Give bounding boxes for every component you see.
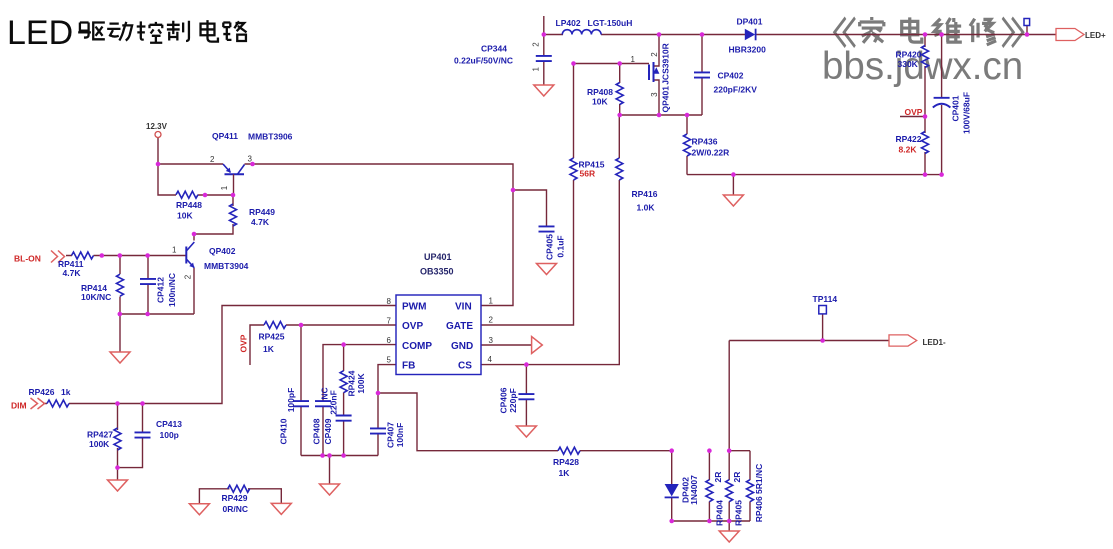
resistor RP426 [47,400,69,407]
resistor RP405 [726,480,733,502]
svg-text:100n/NC: 100n/NC [167,273,177,307]
svg-text:1K: 1K [559,468,571,478]
svg-text:CP413: CP413 [156,419,182,429]
port DIM [31,398,45,409]
wire RP408 leads [619,64,621,116]
wire sense network top corner [729,450,750,452]
svg-text:3: 3 [248,155,253,164]
svg-text:CP407: CP407 [386,422,396,448]
resistor RP436 [684,134,691,156]
svg-text:2W/0.22R: 2W/0.22R [692,148,730,158]
wire test point stem LED+ [1026,26,1028,35]
test point square at LED+ [1024,19,1030,26]
svg-text:DP401: DP401 [737,17,763,27]
wire gate node link [574,63,650,65]
svg-text:CP405: CP405 [545,234,555,260]
transistor QP411 [223,164,245,195]
resistor RP428 [558,447,580,454]
svg-text:LED1-: LED1- [923,338,946,347]
wire LP402 to DP401 [601,34,745,36]
svg-text:10K: 10K [592,97,608,107]
wire QP411 collector to VIN [245,164,514,306]
wire RP429 links [199,489,281,504]
svg-text:8: 8 [387,297,392,306]
wire RP436 leads [686,115,688,175]
wire QP402 emitter bottom bus [120,268,194,314]
wire DP402 leads [671,451,673,521]
capacitor CP344 [536,56,552,61]
svg-text:LGT-150uH: LGT-150uH [588,18,633,28]
ground [110,352,130,363]
svg-text:CS: CS [458,361,472,372]
resistor RP408 [616,83,623,105]
svg-text:RP405: RP405 [734,500,744,526]
wire DIM to PWM pin8 [43,306,396,404]
resistor RP422 [922,132,929,154]
wire DP401 to LED+ [756,34,1057,36]
svg-text:DIM: DIM [11,401,27,411]
svg-text:PWM: PWM [402,302,426,313]
svg-text:3: 3 [650,92,659,97]
svg-text:5: 5 [387,356,392,365]
svg-text:RP406 5R1/NC: RP406 5R1/NC [754,464,764,523]
svg-text:RP408: RP408 [587,87,613,97]
connector LED+ [1056,29,1084,41]
capacitor CP402 [694,72,710,77]
ground [723,195,743,206]
svg-text:2: 2 [184,274,193,279]
svg-text:0R/NC: 0R/NC [223,504,249,514]
svg-text:UP401: UP401 [424,252,452,262]
svg-text:100K: 100K [89,439,110,449]
wire OVP stub and RP425 to pin7 [250,325,396,365]
svg-text:10K: 10K [177,211,193,221]
transistor QP402 [186,242,194,268]
resistor RP404 [706,480,713,502]
svg-text:330K: 330K [898,59,919,69]
svg-text:100K: 100K [356,372,366,393]
inductor LP402 [562,30,601,35]
svg-text:0.1uF: 0.1uF [556,235,566,257]
svg-text:4: 4 [488,355,493,364]
wire RP420 RP422 chain [924,35,926,175]
svg-text:2R: 2R [732,472,742,483]
wire OVP underline [900,116,925,118]
port BL-ON [51,251,65,263]
svg-text:RP404: RP404 [715,500,725,526]
resistor RP429 [228,485,250,492]
svg-text:TP114: TP114 [813,294,838,304]
wire CP344 ground lead [543,62,545,86]
svg-text:100nF: 100nF [395,423,405,448]
ground [516,426,536,437]
svg-text:CP409: CP409 [323,418,333,444]
wire VIN branch to CP405 [513,190,547,226]
capacitor CP410 [293,401,309,406]
svg-text:8.2K: 8.2K [899,145,918,155]
wire CP401 leads [941,35,943,175]
wire RP427 leads [117,404,119,468]
wire GND pin3 [481,344,532,346]
resistor RP427 [114,428,121,450]
svg-text:RP416: RP416 [632,189,658,199]
resistor RP414 [117,274,124,296]
resistor RP416 [616,158,623,180]
watermark text [822,17,1023,88]
svg-text:VIN: VIN [455,302,472,313]
capacitor CP407 [370,428,386,433]
wire RP406 branch [749,451,751,521]
wire RP404 leads [708,451,710,521]
svg-text:CP408: CP408 [312,418,322,444]
ground [271,503,291,514]
wire TP114 stem [822,314,824,341]
resistor RP425 [264,322,286,329]
svg-text:3: 3 [489,336,494,345]
ground [719,531,739,542]
svg-text:RP426: RP426 [29,387,55,397]
svg-text:4.7K: 4.7K [63,268,82,278]
svg-text:CP406: CP406 [499,387,509,413]
wire LED1- net [729,340,889,342]
power symbol 12.3V [155,132,161,138]
svg-text:RP427: RP427 [87,430,113,440]
wire ground stem left cell [119,314,121,352]
wire ground stem comp bus [329,456,331,485]
svg-text:MMBT3906: MMBT3906 [248,132,293,142]
svg-text:1: 1 [631,55,636,64]
ground right-pointing pin3 [532,337,543,354]
capacitor CP406 [518,394,534,399]
svg-text:1: 1 [172,246,177,255]
svg-text:1N4007: 1N4007 [689,475,699,505]
title LED drive control circuit [7,14,247,52]
op-amp U1 IC UP401 box [396,295,481,375]
svg-text:CP410: CP410 [279,418,289,444]
svg-text:RP425: RP425 [259,332,285,342]
svg-text:BL-ON: BL-ON [14,254,41,264]
svg-text:MMBT3904: MMBT3904 [204,261,249,271]
wire input stub top [543,16,545,55]
wire CP402 leads [701,35,703,116]
svg-text:1K: 1K [263,344,275,354]
svg-text:220pF: 220pF [508,388,518,413]
ground [537,264,557,275]
svg-text:0.22uF/50V/NC: 0.22uF/50V/NC [454,56,513,66]
wire ground stem RP427 [117,468,119,480]
svg-text:2: 2 [210,155,215,164]
ground [108,480,128,491]
svg-text:220nF: 220nF [329,390,339,415]
svg-text:CP344: CP344 [481,44,507,54]
wire compensation bottom bus [301,455,378,457]
svg-text:56R: 56R [580,169,596,179]
diode DP401 [745,29,756,41]
svg-text:CP402: CP402 [718,71,744,81]
capacitor CP408 [315,401,331,406]
ground [189,504,209,515]
wire CP406 branch [525,365,527,426]
resistor RP449 [230,204,237,226]
resistor RP424 [340,371,347,393]
svg-text:QP402: QP402 [209,246,236,256]
svg-text:OVP: OVP [239,334,249,352]
wire RP448 to base node [198,194,233,196]
ground [320,484,340,495]
svg-text:1.0K: 1.0K [637,203,656,213]
svg-text:LED: LED [7,14,73,52]
svg-text:OVP: OVP [402,321,423,332]
svg-text:QP401: QP401 [661,86,671,113]
wire CP410 branch [300,325,302,456]
wire sense bottom rail [687,174,942,176]
svg-text:7: 7 [387,317,392,326]
svg-text:GND: GND [451,341,473,352]
svg-text:RP429: RP429 [222,493,248,503]
svg-text:FB: FB [402,361,415,372]
resistor RP448 [176,191,198,198]
svg-text:220pF/2KV: 220pF/2KV [714,85,758,95]
wire FB node [378,365,396,456]
connector LED1- [889,335,917,346]
svg-text:OVP: OVP [905,107,923,117]
wire CP412 leads [147,256,149,315]
wire LED1- drop to sense network [728,341,730,522]
svg-text:4.7K: 4.7K [251,217,270,227]
svg-text:6: 6 [387,336,392,345]
svg-text:1: 1 [532,67,541,72]
resistor RP415 [570,158,577,180]
svg-text:RP420: RP420 [896,50,922,60]
wire FB to RP428 run [378,393,672,451]
wire top rail to LP402 [544,34,563,36]
svg-text:12.3V: 12.3V [146,122,168,131]
wire 12.3V supply rail [158,138,176,196]
svg-text:1k: 1k [61,387,71,397]
svg-text:RP448: RP448 [176,200,202,210]
resistor RP420 [922,46,929,68]
resistor RP406 [747,480,754,502]
svg-text:GATE: GATE [446,321,473,332]
svg-text:1: 1 [489,297,494,306]
wire QP401 source [654,80,660,115]
svg-text:RP449: RP449 [249,207,275,217]
svg-text:2: 2 [489,316,494,325]
capacitor CP405 [539,226,555,231]
svg-text:2R: 2R [713,472,723,483]
capacitor CP409 [336,416,352,421]
wire ground stem sense rail [732,175,734,195]
wire CP413 leads [118,404,143,468]
wire QP401 drain [654,35,660,67]
wire CS pin4 to RP416 [481,115,619,365]
capacitor CP413 [135,432,151,437]
capacitor CP412 [140,279,156,284]
svg-text:100pF: 100pF [286,388,296,413]
ground [534,85,554,96]
svg-text:RP422: RP422 [896,134,922,144]
svg-text:RP436: RP436 [692,137,718,147]
svg-text:LED+: LED+ [1085,31,1106,40]
svg-text:CP401: CP401 [951,95,961,121]
transistor Q2 MOSFET QP401 [649,62,659,82]
wire ground stem sense network [728,521,730,531]
svg-text:100V/68uF: 100V/68uF [962,92,972,134]
svg-text:OB3350: OB3350 [420,267,454,277]
wire RP449 base link [194,195,233,241]
wire GATE pin2 to RP415 [481,64,574,326]
wire RP414 leads [119,256,121,315]
svg-text:2: 2 [532,42,541,47]
svg-text:100p: 100p [160,430,179,440]
svg-text:bbs.jdwx.cn: bbs.jdwx.cn [822,45,1023,88]
svg-text:1: 1 [220,185,229,190]
wire sense network bottom bus [672,520,750,522]
diode DP402 [665,484,679,497]
test point TP114 [819,306,827,314]
svg-text:QP411: QP411 [212,131,238,141]
wire RP424 CP409 branch [343,345,345,456]
wire COMP to CP408 [323,345,396,456]
resistor RP411 [72,252,94,259]
svg-text:RP424: RP424 [347,370,357,396]
svg-text:JCS3910R: JCS3910R [661,43,671,85]
wire QP411 emitter to supply [158,163,223,165]
svg-text:2: 2 [650,52,659,57]
svg-text:CP412: CP412 [156,277,166,303]
svg-text:LP402: LP402 [556,18,581,28]
wire BL-ON to QP402 base [66,255,186,257]
svg-text:HBR3200: HBR3200 [729,45,767,55]
wire MOSFET source bus [620,114,702,116]
svg-text:RP428: RP428 [553,457,579,467]
svg-text:10K/NC: 10K/NC [81,292,111,302]
svg-text:COMP: COMP [402,341,432,352]
capacitor CP401 electrolytic [933,98,951,108]
